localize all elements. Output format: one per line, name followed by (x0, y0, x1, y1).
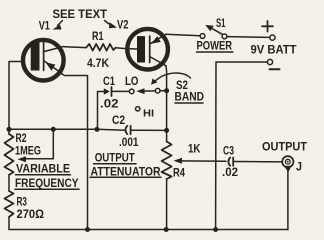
battery plus terminal (270, 35, 275, 40)
svg-text:.02: .02 (222, 167, 238, 179)
capacitor C1 branch wire (98, 92, 105, 130)
svg-text:BAND: BAND (175, 92, 205, 104)
capacitor C3 left plate (228, 158, 230, 166)
see-text leader arrow to V2 (105, 21, 113, 26)
svg-text:VARIABLE: VARIABLE (16, 164, 70, 176)
wire: V1 collector to R1 (65, 46, 87, 49)
S2 HI contact (136, 107, 140, 111)
battery minus terminal (267, 59, 272, 64)
svg-text:1K: 1K (188, 144, 201, 156)
wire: jack ground drop (287, 170, 289, 230)
capacitor C2 wire left (97, 128, 125, 131)
svg-text:R3: R3 (17, 197, 28, 209)
wire: V1 base to left rail (9, 62, 22, 135)
wire: R4 bottom to ground rail (166, 179, 168, 230)
wire: wiper to collector rail (160, 90, 167, 92)
wire: left rail between R2 and R3 (8, 175, 10, 191)
wire: R1 to V2 base (116, 48, 138, 49)
resistor R4 (162, 142, 172, 180)
capacitor C3 right plate (232, 158, 234, 166)
svg-text:R1: R1 (92, 31, 104, 43)
resistor R1 (86, 44, 116, 51)
node: R4 rail at ground (164, 227, 169, 232)
battery plus sign (262, 21, 273, 32)
svg-text:.001: .001 (119, 137, 139, 149)
svg-text:C2: C2 (112, 115, 125, 127)
underline: FREQUENCY (15, 188, 79, 190)
R2 wiper arrowhead (18, 156, 27, 162)
svg-text:9V BATT: 9V BATT (251, 45, 297, 57)
svg-text:4.7K: 4.7K (87, 58, 110, 70)
wire: C1 to LO contact (113, 90, 130, 92)
wire: V2 collector rail (165, 66, 168, 142)
svg-text:C1: C1 (103, 76, 115, 88)
svg-text:SEE TEXT: SEE TEXT (53, 9, 108, 21)
underline: OUTPUT (attenuator) (94, 163, 137, 165)
capacitor C2 right plate (130, 126, 132, 134)
node: left rail / frequency net (7, 127, 12, 132)
node: emitter line at ground (85, 227, 90, 232)
svg-text:HI: HI (143, 109, 154, 120)
svg-text:V2: V2 (117, 20, 129, 32)
svg-text:S2: S2 (176, 80, 188, 92)
node: S2 common on rail (164, 88, 169, 93)
switch S1 right contact (222, 34, 227, 39)
resistor R3 (5, 191, 14, 217)
wire: frequency net from R2 top to caps (9, 128, 97, 130)
S2 leader arrowhead (151, 79, 158, 85)
underline: ATTENUATOR (90, 176, 161, 178)
svg-text:R4: R4 (173, 168, 185, 180)
capacitor C2 left plate (126, 126, 128, 134)
battery minus sign (270, 68, 280, 70)
svg-text:J: J (296, 162, 302, 174)
S2 leader curve (154, 73, 191, 82)
capacitor C1 plates (104, 88, 110, 94)
svg-text:LO: LO (125, 76, 139, 88)
S2 wiper contact (155, 88, 160, 93)
R4 wiper arrowhead (174, 158, 183, 164)
node: wiper tap (51, 127, 56, 132)
wire: C3 to output jack (235, 161, 282, 163)
svg-text:OUTPUT: OUTPUT (95, 153, 135, 165)
svg-text:FREQUENCY: FREQUENCY (15, 178, 79, 190)
svg-text:R2: R2 (16, 133, 27, 145)
svg-text:1MEG: 1MEG (15, 146, 41, 158)
svg-text:270Ω: 270Ω (17, 209, 45, 221)
resistor R2 (5, 134, 14, 175)
underline: POWER (197, 51, 234, 53)
wire: R2 wiper tap drop (24, 129, 53, 159)
wire: battery minus to ground rail (216, 62, 268, 229)
svg-text:OUTPUT: OUTPUT (262, 142, 307, 154)
switch S1 arm (212, 28, 223, 34)
svg-text:.02: .02 (100, 99, 119, 111)
wire: C2 to collector rail (132, 129, 167, 131)
node: C2 right on rail (164, 128, 169, 133)
transistor V2 (127, 29, 168, 70)
wire: R4 wiper to C3 (181, 160, 227, 162)
svg-text:POWER: POWER (197, 41, 233, 53)
svg-text:V1: V1 (39, 21, 51, 33)
switch S1 arm arrowhead (205, 25, 214, 31)
wire: S1 to battery plus (227, 36, 270, 39)
node: battery rail at ground (213, 227, 218, 232)
underline: BAND (175, 102, 203, 104)
node: C1/C2 junction (95, 127, 100, 132)
underline: VARIABLE (16, 174, 71, 176)
S2 LO contact (129, 89, 134, 94)
svg-text:S1: S1 (216, 18, 226, 30)
wire: V2 emitter to S1 (166, 34, 200, 36)
svg-text:C3: C3 (223, 146, 234, 158)
svg-text:ATTENUATOR: ATTENUATOR (91, 167, 162, 179)
output jack J (282, 156, 293, 229)
switch S1 left contact (200, 34, 205, 39)
S2 wiper arrowhead (136, 88, 144, 94)
transistor V1 (23, 40, 64, 81)
wire: left rail bottom corner (8, 217, 10, 230)
S2 wiper arm (143, 90, 155, 92)
see-text leader arrow to V1 (58, 21, 63, 26)
wire: bottom ground rail (9, 229, 288, 231)
wire: V1 emitter run (61, 74, 88, 230)
